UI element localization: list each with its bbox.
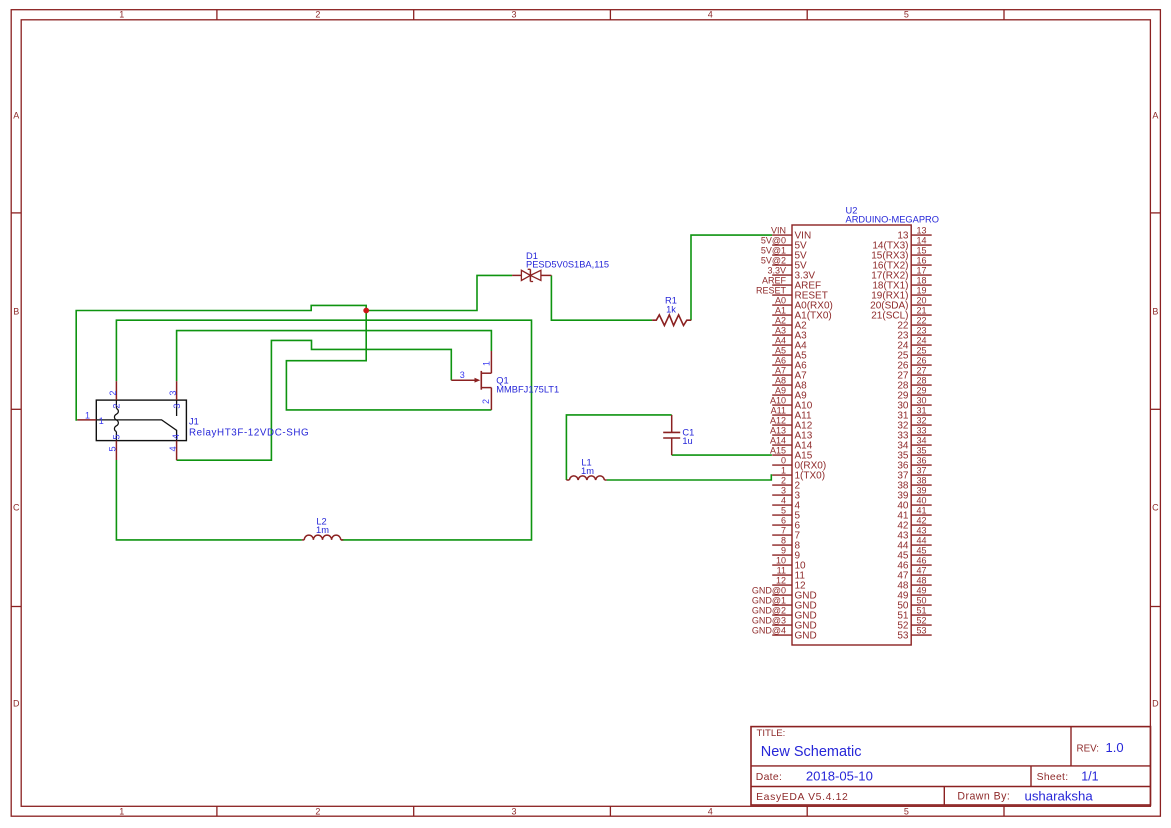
svg-text:RESET: RESET [756,286,787,296]
svg-text:1/1: 1/1 [1081,770,1098,784]
resistor R1 [652,315,691,326]
U2 right pin 32 net 32 [897,416,931,432]
svg-text:5: 5 [781,506,786,516]
svg-text:Date:: Date: [756,772,782,783]
svg-text:5: 5 [108,446,118,451]
svg-text:24: 24 [917,336,927,346]
title block dividers [751,727,1151,805]
svg-text:ARDUINO-MEGAPRO: ARDUINO-MEGAPRO [846,214,940,224]
frame column ticks top [217,10,1004,20]
IC U2 ARDUINO-MEGAPRO body [792,225,911,645]
svg-text:47: 47 [917,566,927,576]
relay J1 body [96,400,186,441]
U2 right pin 13 net 13 [897,226,931,242]
U2 right pin 26 net 26 [897,356,931,372]
U2 left pin A13 net A13 [770,426,813,442]
U2 left pin 12 net 12 [772,576,806,592]
svg-text:GND@0: GND@0 [752,586,786,596]
U2 right pin 15(RX3) net 15 [871,246,931,262]
svg-text:AREF: AREF [762,276,787,286]
U2 right pin 52 net 52 [897,616,931,632]
frame column labels bottom [119,806,909,816]
U2 right pin 27 net 27 [897,366,931,382]
svg-text:1: 1 [119,9,124,19]
svg-text:3: 3 [168,390,178,395]
U2 right pin 16(TX2) net 16 [872,256,931,272]
frame column labels top [119,9,909,19]
svg-text:A7: A7 [775,366,786,376]
svg-text:1.0: 1.0 [1106,740,1124,755]
svg-text:C: C [13,502,20,512]
svg-text:TITLE:: TITLE: [757,728,786,739]
U2 right pin 36 net 36 [897,456,931,472]
svg-text:26: 26 [917,356,927,366]
svg-text:34: 34 [917,436,927,446]
U2 right pin 18(TX1) net 18 [872,276,931,292]
svg-text:3: 3 [460,370,465,380]
svg-text:Sheet:: Sheet: [1037,772,1069,783]
svg-text:A: A [13,110,19,120]
U2 left pin 10 net 10 [772,556,806,572]
U2 right pin 35 net 35 [897,446,931,462]
svg-text:3: 3 [172,403,182,408]
svg-text:27: 27 [917,366,927,376]
svg-text:New Schematic: New Schematic [761,744,862,760]
U2 left pin A14 net A14 [770,436,813,452]
U2 left pin A3 net A3 [772,326,807,342]
svg-text:8: 8 [781,536,786,546]
svg-text:5: 5 [904,806,909,816]
svg-text:1: 1 [781,466,786,476]
U2 right pin 33 net 33 [897,426,931,442]
U2 left pin GND net GND@1 [752,596,817,612]
svg-text:J1: J1 [189,416,199,426]
wire C1 top to L1 left lead [566,415,671,480]
svg-text:40: 40 [917,496,927,506]
U2 left pin A1(TX0) net A1 [772,306,832,322]
svg-text:A0: A0 [775,296,786,306]
U2 left pin 3 net 3 [772,486,800,502]
relay J1 pin 2 [115,381,117,400]
inductor L1 [566,476,606,480]
U2 left pin A10 net A10 [770,396,813,412]
svg-text:A10: A10 [770,396,786,406]
wire net VIN: U2.VIN left then down to R1 right lead [691,235,772,320]
wire relay J1 pin 2 up to horizontal rail to bottom loop [116,320,531,540]
U2 right pin 24 net 24 [897,336,931,352]
svg-text:33: 33 [917,426,927,436]
relay J1 switch arm from pin 1 [96,420,176,441]
U2 left pin 6 net 6 [772,516,800,532]
U2 left pin GND net GND@2 [752,606,817,622]
relay J1 pin 3 [176,381,178,400]
U2 left pin 5V net 5V@2 [761,256,807,272]
U2 right pin 49 net 49 [897,586,931,602]
svg-text:51: 51 [917,606,927,616]
U2 right pin 34 net 34 [897,436,931,452]
wire relay J1 pin 5 down to bottom rail to L2 left lead [116,460,302,540]
U2 right pin 31 net 31 [897,406,931,422]
U2 right pin 47 net 47 [897,566,931,582]
frame column ticks bottom [217,806,1004,816]
U2 left pin A9 net A9 [772,386,807,402]
U2 right pin 20(SDA) net 20 [870,296,932,312]
frame row labels right [1152,110,1159,708]
svg-text:A: A [1152,110,1158,120]
svg-text:35: 35 [917,446,927,456]
U2 left pin 7 net 7 [772,526,800,542]
svg-text:31: 31 [917,406,927,416]
U2 left pin A12 net A12 [770,416,813,432]
svg-text:42: 42 [917,516,927,526]
svg-text:23: 23 [917,326,927,336]
transistor Q1 MMBFJ175LT1 [451,351,491,410]
U2 left pin A2 net A2 [772,316,807,332]
U2 right pin 21(SCL) net 21 [871,306,931,322]
U2 left pin 5V net 5V@0 [761,236,807,252]
svg-text:A13: A13 [770,426,786,436]
relay J1 pin 5 [115,441,117,460]
svg-text:28: 28 [917,376,927,386]
svg-text:32: 32 [917,416,927,426]
wire junction down to Q1 pin 2 [286,311,491,410]
U2 right pin 53 net 53 [897,626,931,642]
svg-text:4: 4 [708,806,713,816]
svg-text:A11: A11 [771,406,786,416]
svg-text:D: D [13,699,20,709]
U2 left pin 9 net 9 [772,546,800,562]
U2 right pin 40 net 40 [897,496,931,512]
svg-text:14: 14 [917,236,927,246]
svg-text:5: 5 [111,434,121,439]
U2 left pin A0(RX0) net A0 [772,296,833,312]
svg-text:1k: 1k [666,305,676,315]
U2 right pin 25 net 25 [897,346,931,362]
svg-text:2: 2 [112,403,122,408]
svg-text:21: 21 [917,306,927,316]
svg-text:50: 50 [917,596,927,606]
inductor L2 [302,535,343,540]
svg-text:2: 2 [315,9,320,19]
capacitor C1 [663,415,680,455]
relay J1 pin 4 [176,441,178,461]
U2 left pin A7 net A7 [772,366,807,382]
U2 right pin 48 net 48 [897,576,931,592]
svg-text:6: 6 [781,516,786,526]
svg-text:20: 20 [917,296,927,306]
svg-text:A8: A8 [775,376,786,386]
svg-text:Drawn By:: Drawn By: [957,791,1010,803]
svg-text:REV:: REV: [1077,744,1100,755]
svg-text:52: 52 [917,616,927,626]
U2 right pin 22 net 22 [897,316,931,332]
svg-text:41: 41 [917,506,927,516]
svg-text:37: 37 [917,466,927,476]
svg-text:A1: A1 [775,306,786,316]
U2 right pin 39 net 39 [897,486,931,502]
U2 left pin A8 net A8 [772,376,807,392]
U2 left pin 5 net 5 [772,506,800,522]
frame row ticks right [1150,213,1160,607]
svg-text:A15: A15 [770,446,786,456]
title block box [751,727,1151,805]
U2 left pin 11 net 11 [772,566,805,582]
svg-text:2: 2 [315,806,320,816]
svg-text:3.3V: 3.3V [767,266,786,276]
U2 left pin A4 net A4 [772,336,807,352]
svg-text:4: 4 [781,496,786,506]
svg-text:1: 1 [119,806,124,816]
svg-text:38: 38 [917,476,927,486]
svg-text:GND@2: GND@2 [752,606,786,616]
U2 left pin AREF net AREF [762,276,821,292]
U2 left pin 1(TX0) net 1 [772,466,825,482]
junction dot [363,308,369,314]
svg-text:39: 39 [917,486,927,496]
svg-text:1: 1 [99,416,104,426]
svg-text:4: 4 [708,9,713,19]
svg-text:1m: 1m [316,525,329,535]
wire C1 bottom to U2 pin A15 [672,454,772,456]
wire D1 anode to junction node [366,275,512,310]
U2 right pin 45 net 45 [897,546,931,562]
svg-text:2: 2 [781,476,786,486]
svg-text:GND: GND [795,631,817,642]
svg-text:7: 7 [781,526,786,536]
svg-text:16: 16 [917,256,927,266]
svg-text:3: 3 [511,9,516,19]
svg-text:53: 53 [897,631,909,642]
svg-text:A2: A2 [775,316,786,326]
svg-text:3: 3 [781,486,786,496]
svg-text:30: 30 [917,396,927,406]
U2 right pin 51 net 51 [897,606,931,622]
svg-text:A3: A3 [775,326,786,336]
U2 left pin A11 net A11 [771,406,812,422]
svg-text:usharaksha: usharaksha [1025,789,1094,804]
svg-text:A14: A14 [770,436,786,446]
wire L1 right lead to U2 pin 1(TX0) [607,475,773,480]
U2 right pin 50 net 50 [897,596,931,612]
U2 right pin 30 net 30 [897,396,931,412]
relay J1 coil [114,400,118,441]
svg-text:1: 1 [482,361,492,366]
relay J1 fixed contact from pin 3 [176,400,178,416]
svg-text:25: 25 [917,346,927,356]
U2 left pin A15 net A15 [770,446,813,462]
svg-text:0: 0 [781,456,786,466]
svg-text:19: 19 [917,286,927,296]
wire relay J1 pin 4 to Q1 gate pin 3 with jogs [177,340,452,460]
U2 left pin GND net GND@4 [752,626,817,642]
relay J1 pin 1 [77,419,96,421]
svg-text:5V@0: 5V@0 [761,236,786,246]
wire junction to relay J1 pin 1 with jog [76,305,366,420]
svg-text:43: 43 [917,526,927,536]
svg-text:A12: A12 [770,416,786,426]
svg-text:48: 48 [917,576,927,586]
svg-text:10: 10 [776,556,786,566]
svg-text:29: 29 [917,386,927,396]
svg-text:B: B [1152,306,1158,316]
U2 left pin 4 net 4 [772,496,800,512]
svg-text:13: 13 [917,226,927,236]
U2 right pin 37 net 37 [897,466,931,482]
U2 right pin 46 net 46 [897,556,931,572]
svg-text:4: 4 [168,446,178,451]
U2 left pin A6 net A6 [772,356,807,372]
svg-text:3: 3 [511,806,516,816]
U2 left pin 8 net 8 [772,536,800,552]
svg-text:17: 17 [917,266,927,276]
diode D1 TVS PESD5V0S1BA,115 [512,269,551,281]
svg-text:1m: 1m [581,466,594,476]
svg-text:C: C [1152,502,1159,512]
svg-text:RelayHT3F-12VDC-SHG: RelayHT3F-12VDC-SHG [189,427,309,438]
svg-text:1u: 1u [682,436,692,446]
svg-text:22: 22 [917,316,927,326]
svg-text:4: 4 [171,434,181,439]
U2 right pin 44 net 44 [897,536,931,552]
U2 right pin 19(RX1) net 19 [871,286,931,302]
U2 left pin 2 net 2 [772,476,800,492]
svg-text:PESD5V0S1BA,115: PESD5V0S1BA,115 [526,260,609,270]
U2 right pin 14(TX3) net 14 [872,236,931,252]
svg-text:12: 12 [776,576,786,586]
svg-text:11: 11 [777,566,786,576]
frame row ticks left [11,213,21,607]
svg-text:5V@1: 5V@1 [761,246,786,256]
svg-text:A9: A9 [775,386,786,396]
svg-text:2018-05-10: 2018-05-10 [806,769,873,784]
svg-text:36: 36 [917,456,927,466]
frame row labels left [13,110,20,708]
wire net VIN: R1 left lead to D1 cathode riser [551,275,652,320]
U2 right pin 17(RX2) net 17 [871,266,931,282]
svg-text:2: 2 [108,390,118,395]
U2 left pin 3.3V net 3.3V [767,266,815,282]
U2 right pin 43 net 43 [897,526,931,542]
U2 left pin VIN net VIN [771,226,811,242]
svg-text:A6: A6 [775,356,786,366]
svg-text:MMBFJ175LT1: MMBFJ175LT1 [496,384,559,394]
svg-text:VIN: VIN [771,226,786,236]
U2 right pin 29 net 29 [897,386,931,402]
svg-text:49: 49 [917,586,927,596]
U2 left pin 0(RX0) net 0 [772,456,826,472]
svg-text:EasyEDA V5.4.12: EasyEDA V5.4.12 [756,792,848,803]
U2 right pin 38 net 38 [897,476,931,492]
svg-text:GND@3: GND@3 [752,616,786,626]
U2 right pin 42 net 42 [897,516,931,532]
svg-text:44: 44 [917,536,927,546]
svg-text:B: B [13,306,19,316]
U2 left pin 5V net 5V@1 [761,246,807,262]
wire relay J1 pin 3 up and over to Q1 pin 1 [177,331,492,382]
svg-text:GND@4: GND@4 [752,626,786,636]
svg-text:45: 45 [917,546,927,556]
svg-text:9: 9 [781,546,786,556]
U2 left pin GND net GND@0 [752,586,817,602]
U2 right pin 41 net 41 [897,506,931,522]
svg-text:18: 18 [917,276,927,286]
svg-text:2: 2 [481,399,491,404]
svg-text:1: 1 [85,411,90,421]
svg-text:D: D [1152,699,1159,709]
U2 left pin GND net GND@3 [752,616,817,632]
svg-text:15: 15 [917,246,927,256]
svg-text:A5: A5 [775,346,786,356]
U2 left pin RESET net RESET [756,286,828,302]
svg-text:GND@1: GND@1 [752,596,786,606]
svg-text:5: 5 [904,9,909,19]
svg-text:A4: A4 [775,336,786,346]
svg-text:5V@2: 5V@2 [761,256,786,266]
U2 right pin 23 net 23 [897,326,931,342]
svg-text:53: 53 [917,626,927,636]
svg-text:46: 46 [917,556,927,566]
U2 right pin 28 net 28 [897,376,931,392]
U2 left pin A5 net A5 [772,346,807,362]
